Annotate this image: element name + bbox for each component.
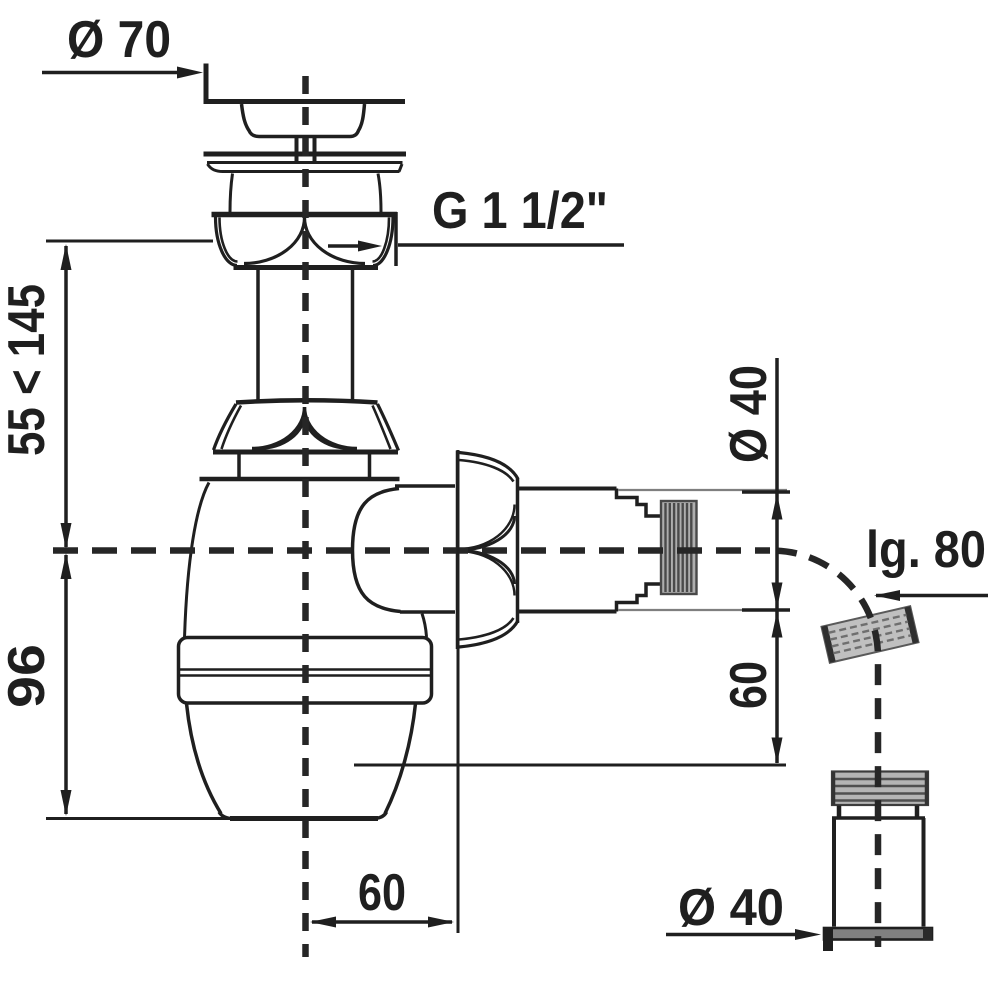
svg-text:55 < 145: 55 < 145	[0, 284, 56, 456]
svg-text:96: 96	[0, 644, 56, 708]
svg-text:lg. 80: lg. 80	[866, 521, 986, 579]
svg-text:Ø 40: Ø 40	[720, 365, 778, 463]
svg-text:Ø 70: Ø 70	[67, 11, 171, 69]
svg-text:60: 60	[358, 864, 406, 922]
svg-text:Ø 40: Ø 40	[678, 879, 784, 937]
svg-text:60: 60	[720, 661, 778, 709]
svg-text:G 1 1/2": G 1 1/2"	[432, 182, 608, 240]
